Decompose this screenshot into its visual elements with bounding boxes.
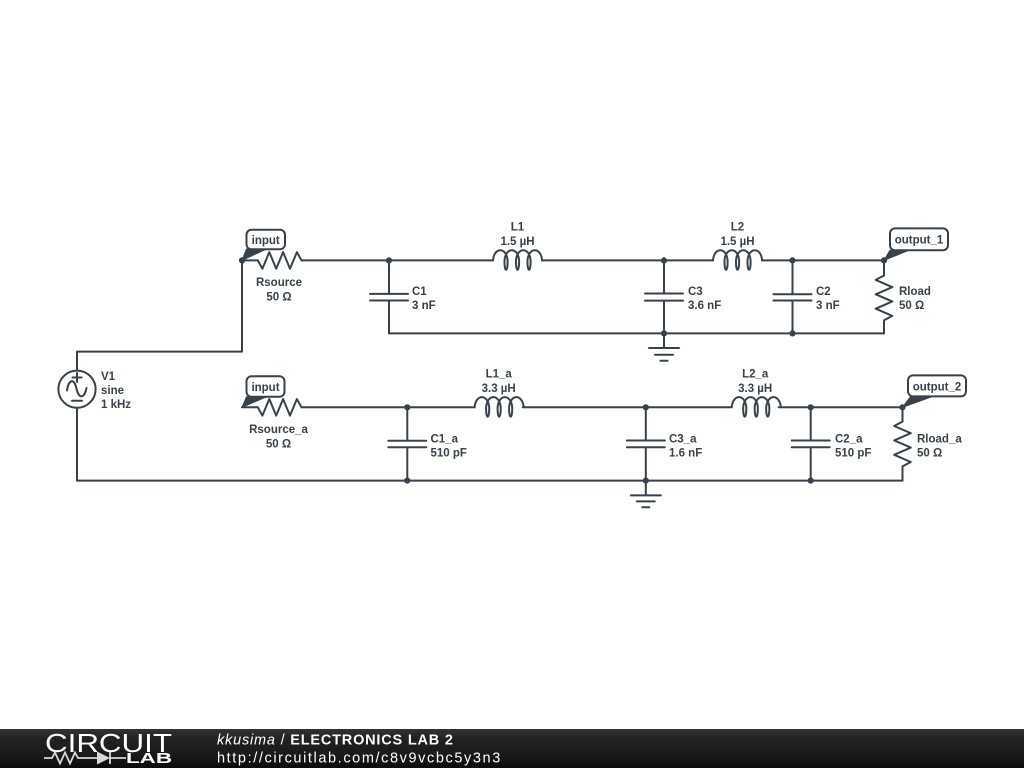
svg-text:1 kHz: 1 kHz [101, 399, 131, 411]
svg-text:LAB: LAB [126, 751, 172, 767]
svg-text:L2: L2 [731, 222, 744, 234]
svg-text:output_1: output_1 [895, 235, 944, 247]
svg-text:510 pF: 510 pF [835, 448, 871, 460]
svg-text:http://circuitlab.com/c8v9vcbc: http://circuitlab.com/c8v9vcbc5y3n3 [217, 751, 502, 767]
svg-text:50 Ω: 50 Ω [266, 292, 291, 304]
svg-text:3.3 µH: 3.3 µH [482, 383, 516, 395]
svg-text:50 Ω: 50 Ω [899, 300, 924, 312]
svg-text:Rsource_a: Rsource_a [249, 424, 308, 436]
svg-text:Rload_a: Rload_a [917, 434, 962, 446]
svg-text:C1: C1 [412, 286, 427, 298]
svg-text:50 Ω: 50 Ω [266, 439, 291, 451]
svg-text:3.6 nF: 3.6 nF [688, 300, 721, 312]
svg-text:L1_a: L1_a [486, 368, 513, 380]
svg-text:V1: V1 [101, 371, 116, 383]
svg-text:Rload: Rload [899, 286, 931, 298]
svg-text:input: input [251, 382, 279, 394]
svg-text:3 nF: 3 nF [412, 300, 436, 312]
svg-text:L1: L1 [511, 222, 525, 234]
svg-text:output_2: output_2 [913, 381, 962, 393]
svg-text:C3_a: C3_a [669, 434, 697, 446]
svg-text:C2_a: C2_a [835, 434, 863, 446]
svg-text:510 pF: 510 pF [431, 448, 467, 460]
svg-text:C2: C2 [816, 286, 831, 298]
svg-text:3 nF: 3 nF [816, 300, 840, 312]
svg-text:sine: sine [101, 385, 124, 397]
svg-text:1.6 nF: 1.6 nF [669, 448, 702, 460]
svg-text:1.5 µH: 1.5 µH [500, 236, 534, 248]
svg-text:50 Ω: 50 Ω [917, 448, 942, 460]
svg-text:3.3 µH: 3.3 µH [738, 383, 772, 395]
svg-text:Rsource: Rsource [256, 277, 302, 289]
svg-text:C1_a: C1_a [431, 434, 459, 446]
svg-text:L2_a: L2_a [742, 368, 769, 380]
svg-text:C3: C3 [688, 286, 703, 298]
svg-text:input: input [252, 235, 280, 247]
svg-text:1.5 µH: 1.5 µH [720, 236, 754, 248]
svg-text:kkusima / ELECTRONICS LAB 2: kkusima / ELECTRONICS LAB 2 [217, 733, 454, 749]
